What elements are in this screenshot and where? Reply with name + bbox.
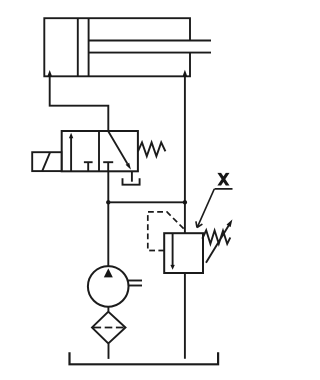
relief valve RV1 spring — [202, 230, 230, 244]
arrow into cylinder left port — [47, 70, 52, 77]
valve V1 return spring — [138, 142, 166, 156]
valve V1 left position blocked port — [84, 162, 93, 171]
valve V1 exhaust drain tank — [123, 171, 140, 184]
arrow into cylinder right port — [182, 70, 187, 77]
tank T1 — [70, 352, 219, 364]
cylinder C1 rod — [89, 41, 211, 53]
relief valve RV1 body — [164, 233, 203, 273]
label X leader arrow — [196, 189, 214, 228]
relief valve RV1 flow arrow — [170, 233, 174, 269]
pump P1 drive shaft — [128, 281, 142, 286]
valve V1 left position flow arrow — [69, 133, 73, 171]
pump P1 flow triangle — [104, 268, 113, 277]
relief valve RV1 adjustment arrow — [206, 219, 232, 262]
filter F1 — [92, 312, 126, 344]
junction node on pump line — [106, 200, 110, 204]
solenoid S1 — [32, 152, 62, 171]
wire relief valve outlet to tank — [184, 273, 186, 359]
label X — [217, 173, 229, 186]
wire pump suction to filter — [107, 307, 109, 313]
wire left cylinder port elbow to valve port A — [50, 76, 109, 131]
label X underline — [215, 188, 233, 190]
wire junction to main line — [108, 201, 185, 203]
wire filter outlet to tank — [108, 343, 110, 359]
wire valve P port to pump — [107, 171, 109, 266]
cylinder C1 body — [44, 18, 190, 76]
cylinder C1 piston — [78, 18, 89, 76]
filter F1 element dashed — [94, 327, 125, 329]
pilot line dashed — [148, 212, 184, 251]
valve V1 right position blocked port — [103, 162, 113, 171]
wire right cylinder port down main pressure line — [184, 76, 186, 233]
valve V1 right position exhaust path arrow — [108, 131, 131, 169]
pump P1 — [88, 266, 129, 307]
junction node on main line — [183, 200, 187, 204]
directional valve V1 body — [62, 131, 138, 171]
